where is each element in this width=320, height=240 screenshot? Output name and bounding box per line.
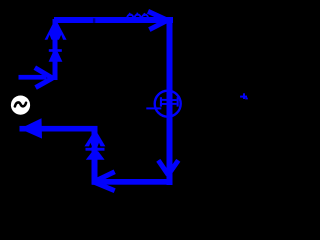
arrowhead: current direction on bottom wire (points left) (94, 172, 115, 191)
wire: middle vertical (92, 128, 98, 185)
arrowhead: current direction on top wire (points right) (148, 11, 168, 29)
wire: left vertical (53, 19, 58, 80)
lamp U1: left lower tick (162, 103, 167, 105)
diode D1: anode triangle on left vertical (49, 52, 63, 62)
lamp U1: circle outline (155, 91, 181, 117)
wire: middle horizontal (20, 126, 98, 132)
arrowhead: current direction toward left vertical (points right) (35, 68, 53, 88)
AC source V1: white circle (11, 96, 30, 115)
wire: stub entering lamp from left (146, 107, 161, 109)
diode D2: cathode bar on middle vertical (86, 148, 105, 151)
wire: short horizontal arrow shaft from source (19, 75, 47, 80)
arrowhead: current direction on middle horizontal (points left, filled) (20, 118, 42, 138)
arrowhead: current direction on right vertical (points down) (158, 160, 178, 175)
resistor R1 (coil bumps on top wire) (127, 14, 148, 18)
lamp U1: right plate bar (177, 97, 179, 106)
arrowhead: current direction on middle vertical (points up, filled) (84, 129, 105, 146)
lamp U1: left plate bar (160, 97, 162, 106)
lamp U1: left upper tick (162, 99, 167, 101)
node: faint label on top wire (93, 18, 95, 23)
diode D2: anode triangle on middle vertical (86, 151, 105, 160)
lamp U1: right lower tick (172, 103, 176, 105)
wire: right vertical (167, 17, 173, 185)
lamp U1: right upper tick (172, 99, 176, 101)
arrowhead: current direction on left vertical (points up, filled) (45, 19, 67, 40)
diode D1: cathode bar on left vertical (49, 49, 62, 52)
AC source V1: sine symbol (15, 102, 26, 106)
cursor: small plus mark (243, 93, 245, 99)
wire: bottom horizontal (92, 179, 173, 185)
wire: top horizontal (54, 17, 173, 23)
